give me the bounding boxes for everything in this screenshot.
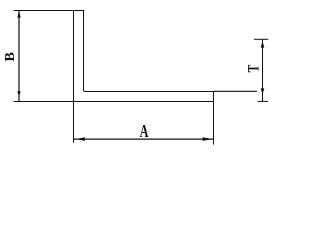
arrowhead A right (points right) (203, 137, 213, 141)
svg-text:B: B (3, 52, 18, 61)
profile bottom edge with B bottom extension line (14, 101, 214, 103)
arrowhead A left (points left) (76, 137, 85, 141)
svg-text:A: A (140, 122, 149, 142)
profile flange end edge with A right extension line (213, 92, 215, 145)
svg-text:T: T (246, 64, 263, 72)
A left extension line (below profile) (73, 102, 75, 143)
dimension line B (18, 11, 20, 102)
T extension line from flange top edge (214, 90, 258, 92)
profile top edge with B top extension line (14, 10, 85, 12)
profile outer left edge (73, 11, 75, 102)
arrowhead T bottom (points down) (261, 88, 265, 94)
arrowhead T top (points up) (261, 41, 265, 48)
T bottom extension tick (258, 100, 269, 102)
profile inner edge (vertical leg inner side, fillet, flange inner top) (84, 11, 214, 92)
arrowhead B bottom (points down) (17, 91, 20, 96)
dimension line A (74, 138, 214, 140)
arrowhead B top (points up) (17, 11, 20, 18)
T top extension tick (254, 38, 268, 40)
dimension line T (262, 39, 264, 101)
